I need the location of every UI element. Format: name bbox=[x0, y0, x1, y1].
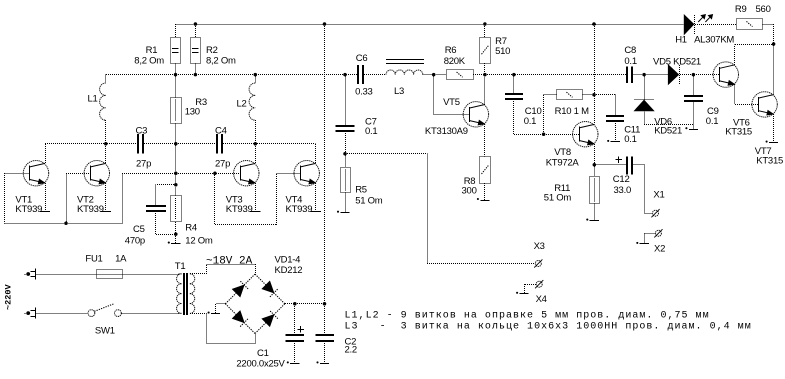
svg-text:KT939.: KT939. bbox=[15, 204, 44, 215]
svg-text:0.1: 0.1 bbox=[365, 126, 377, 137]
svg-text:33.0: 33.0 bbox=[614, 185, 632, 196]
svg-text:H1: H1 bbox=[675, 35, 687, 46]
svg-text:27p: 27p bbox=[215, 159, 230, 170]
svg-text:KT939.: KT939. bbox=[77, 204, 106, 215]
svg-text:0.1: 0.1 bbox=[706, 116, 718, 127]
svg-text:L3: L3 bbox=[394, 86, 404, 97]
svg-text:KT939.: KT939. bbox=[286, 204, 315, 215]
svg-text:L3 - 3 витка на кольце 10x6: L3 - 3 витка на кольце 10x6x3 1000НН про… bbox=[345, 321, 752, 332]
svg-text:510: 510 bbox=[495, 46, 510, 57]
svg-text:L1,L2 - 9 витков на оправке 5: L1,L2 - 9 витков на оправке 5 мм пров. д… bbox=[345, 310, 710, 321]
svg-text:VD5 KD521: VD5 KD521 bbox=[653, 56, 701, 67]
svg-text:C4: C4 bbox=[215, 126, 227, 137]
svg-text:AL307KM: AL307KM bbox=[694, 35, 734, 46]
svg-text:R6: R6 bbox=[445, 45, 457, 56]
svg-text:C8: C8 bbox=[624, 45, 636, 56]
svg-text:27p: 27p bbox=[136, 159, 151, 170]
svg-text:300: 300 bbox=[462, 186, 477, 197]
svg-text:KT939.: KT939. bbox=[226, 204, 255, 215]
svg-text:C1: C1 bbox=[257, 348, 269, 359]
svg-text:0.1: 0.1 bbox=[624, 56, 636, 67]
svg-text:KD212: KD212 bbox=[275, 265, 303, 276]
svg-text:C5: C5 bbox=[133, 224, 145, 235]
svg-text:2.2: 2.2 bbox=[345, 344, 357, 355]
svg-text:KD521: KD521 bbox=[654, 126, 682, 137]
svg-text:KT315: KT315 bbox=[725, 127, 752, 138]
svg-text:R4: R4 bbox=[185, 223, 197, 234]
svg-text:~18V 2A: ~18V 2A bbox=[206, 255, 253, 267]
svg-text:R10 1 M: R10 1 M bbox=[555, 106, 589, 117]
svg-text:L2: L2 bbox=[237, 99, 247, 110]
svg-text:0.1: 0.1 bbox=[524, 116, 536, 127]
svg-text:T1: T1 bbox=[175, 261, 186, 272]
svg-text:X3: X3 bbox=[534, 241, 545, 252]
svg-text:R5: R5 bbox=[355, 185, 367, 196]
svg-text:470p: 470p bbox=[125, 236, 145, 247]
svg-text:KT315: KT315 bbox=[756, 156, 783, 167]
svg-text:820K: 820K bbox=[444, 56, 466, 67]
svg-text:C12: C12 bbox=[613, 174, 630, 185]
svg-text:KT972A: KT972A bbox=[546, 158, 580, 169]
svg-text:C6: C6 bbox=[356, 53, 368, 64]
svg-text:FU1: FU1 bbox=[85, 254, 102, 265]
svg-text:VT5: VT5 bbox=[443, 97, 460, 108]
svg-text:C3: C3 bbox=[136, 126, 148, 137]
svg-text:8,2 Om: 8,2 Om bbox=[206, 55, 236, 66]
svg-text:560: 560 bbox=[756, 4, 771, 15]
svg-text:R7: R7 bbox=[495, 36, 507, 47]
svg-text:~220V: ~220V bbox=[4, 284, 14, 310]
svg-text:12 Om: 12 Om bbox=[185, 236, 213, 247]
svg-text:R9: R9 bbox=[735, 4, 747, 15]
svg-text:2200.0x25V: 2200.0x25V bbox=[236, 359, 285, 370]
svg-text:51 Om: 51 Om bbox=[544, 193, 572, 204]
svg-text:0.1: 0.1 bbox=[624, 134, 636, 145]
svg-text:X4: X4 bbox=[536, 294, 547, 305]
svg-text:51 Om: 51 Om bbox=[355, 196, 383, 207]
svg-text:1A: 1A bbox=[115, 254, 127, 265]
svg-text:0.33: 0.33 bbox=[355, 87, 373, 98]
svg-text:130: 130 bbox=[185, 107, 200, 118]
svg-text:KT3130A9: KT3130A9 bbox=[425, 126, 468, 137]
svg-text:8,2 Om: 8,2 Om bbox=[134, 55, 164, 66]
svg-text:VT8: VT8 bbox=[554, 147, 571, 158]
svg-text:X2: X2 bbox=[654, 243, 665, 254]
svg-text:L1: L1 bbox=[88, 94, 98, 105]
svg-text:X1: X1 bbox=[653, 190, 664, 201]
svg-text:SW1: SW1 bbox=[95, 325, 115, 336]
